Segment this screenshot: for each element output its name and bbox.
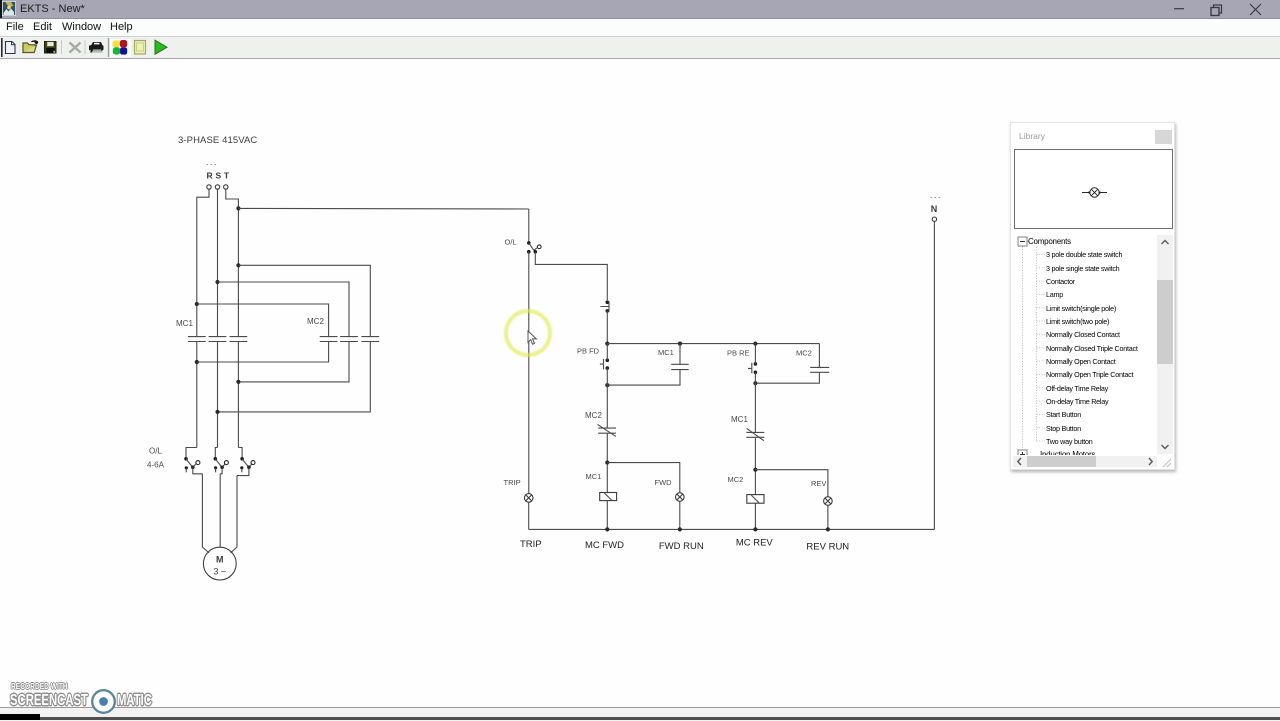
node junction REV chain top xyxy=(753,342,757,346)
node junction below PB FD xyxy=(605,383,609,387)
wire chain top rail xyxy=(607,343,819,345)
wire phase T down xyxy=(226,189,239,336)
svg-text:N: N xyxy=(931,204,938,214)
wire TRIP rail xyxy=(528,252,530,494)
wire T to MC2 right input xyxy=(238,265,370,336)
wire S below MC1 xyxy=(217,342,219,448)
mouse cursor xyxy=(527,330,539,347)
contact MC1 normally closed xyxy=(746,428,764,440)
terminal R xyxy=(207,185,211,189)
node bottom TRIP xyxy=(605,527,609,531)
watermark recorded with xyxy=(11,681,68,691)
toolbar xyxy=(0,37,1280,59)
wire MC1 coil to bottom xyxy=(606,501,608,530)
watermark screencastomatic logo xyxy=(90,688,117,715)
svg-text:MC1: MC1 xyxy=(658,348,674,357)
wire MC2 left output to R xyxy=(197,342,329,363)
svg-text:REV RUN: REV RUN xyxy=(806,542,849,553)
wire MC1 NC to coil node xyxy=(754,437,756,494)
node junction FWD chain top xyxy=(605,342,609,346)
run (play) icon xyxy=(155,40,167,54)
svg-text:MC1: MC1 xyxy=(586,472,602,481)
vertical scrollbar xyxy=(1157,235,1173,454)
node junction T to control rail xyxy=(236,206,240,210)
node junction R branch to MC2 xyxy=(195,302,199,306)
svg-text:PB FD: PB FD xyxy=(577,346,600,355)
preview box xyxy=(1014,149,1173,229)
start button PB FD xyxy=(600,358,609,370)
separator xyxy=(84,40,86,54)
wire FWD lamp to bottom xyxy=(679,501,681,529)
library panel xyxy=(1010,122,1175,470)
title bar xyxy=(0,0,1280,19)
wire REV lamp branch xyxy=(755,470,828,497)
wire motor lead middle xyxy=(219,474,221,547)
lamp REV xyxy=(824,497,833,506)
wire MC2 NC to coil node xyxy=(606,433,608,492)
svg-text:MC FWD: MC FWD xyxy=(585,540,624,551)
svg-text:3 ~: 3 ~ xyxy=(213,567,226,577)
wire MC2 right output to S xyxy=(218,342,371,412)
wire N rail xyxy=(933,221,935,529)
contact MC1 holding NO xyxy=(607,344,688,386)
terminal T xyxy=(224,185,228,189)
contactor MC2 main contacts xyxy=(320,337,380,342)
svg-text:PB RE: PB RE xyxy=(727,348,750,357)
wire FWD lamp branch xyxy=(607,463,680,493)
group divider xyxy=(108,38,110,57)
expand box components xyxy=(1018,237,1027,246)
open folder icon xyxy=(23,40,38,52)
wire PB FD to MC2 NC xyxy=(606,368,608,428)
node bottom MC REV xyxy=(753,527,757,531)
svg-text:TRIP: TRIP xyxy=(520,539,542,550)
node junction S branch to MC2 xyxy=(215,280,219,284)
lamp FWD xyxy=(676,493,685,502)
menu bar xyxy=(0,19,1280,37)
svg-text:REV: REV xyxy=(811,479,826,488)
coil MC2 xyxy=(747,495,764,504)
grid dots above RST xyxy=(207,164,217,166)
wire MC2 coil to bottom xyxy=(754,503,756,529)
wire phase S down xyxy=(217,189,219,336)
node junction R merge xyxy=(195,360,199,364)
node bottom FWD xyxy=(678,527,682,531)
svg-text:3-PHASE 415VAC: 3-PHASE 415VAC xyxy=(178,135,257,146)
svg-text:TRIP: TRIP xyxy=(504,478,521,487)
overload O/L pole 2 xyxy=(214,448,229,474)
node junction MC1 hold top xyxy=(678,342,682,346)
components tree xyxy=(1011,235,1157,455)
wire R to MC2 left input xyxy=(197,304,329,337)
svg-text:O/L: O/L xyxy=(149,447,162,456)
scenario page icon xyxy=(135,41,146,55)
highlight ring around cursor xyxy=(504,309,552,357)
delete X icon (disabled) xyxy=(70,43,81,53)
contact MC2 normally closed xyxy=(598,424,617,436)
svg-text:MC2: MC2 xyxy=(307,317,324,326)
separator xyxy=(61,40,63,54)
contact MC2 holding NO xyxy=(755,344,829,384)
lamp preview symbol xyxy=(1081,183,1109,203)
wire T below MC1 xyxy=(237,342,239,448)
svg-text:O/L: O/L xyxy=(505,238,517,247)
svg-text:RST: RST xyxy=(207,171,232,181)
node junction T branch to MC2 xyxy=(236,263,240,267)
wire motor lead right xyxy=(231,476,237,553)
wire O/L NO to stop button xyxy=(535,252,607,300)
svg-text:MC1: MC1 xyxy=(731,415,748,424)
node junction REV branch xyxy=(753,468,757,472)
horizontal scrollbar xyxy=(1013,456,1157,467)
node junction FWD branch xyxy=(605,460,609,464)
resize grip xyxy=(1159,455,1173,468)
wire bottom rail xyxy=(529,528,935,530)
print icon xyxy=(89,42,104,53)
svg-text:FWD RUN: FWD RUN xyxy=(659,541,704,552)
app icon xyxy=(2,1,16,16)
wire REV lamp to bottom xyxy=(827,505,829,529)
wire PB FD top connection xyxy=(606,344,608,361)
svg-text:MC2: MC2 xyxy=(728,475,744,484)
motor M 3~ xyxy=(203,547,236,580)
overload trip contact control xyxy=(527,241,541,254)
wire motor lead left xyxy=(202,474,209,553)
terminal N xyxy=(932,217,936,221)
wire control supply rail xyxy=(238,207,528,210)
wire R below MC1 xyxy=(196,342,198,448)
node bottom REV RUN xyxy=(826,527,830,531)
wire TRIP to bottom rail xyxy=(528,502,530,529)
overload O/L pole 1 xyxy=(184,448,202,474)
coil MC1 xyxy=(600,493,617,501)
toolbar grip xyxy=(1,38,3,57)
grid dots above N xyxy=(931,197,941,199)
svg-text:MC REV: MC REV xyxy=(736,538,774,549)
wire control left rail top xyxy=(528,209,530,243)
svg-text:MC2: MC2 xyxy=(796,349,812,358)
stop button xyxy=(600,300,609,312)
node junction below PB RE xyxy=(753,381,757,385)
bottom bar xyxy=(0,707,1280,721)
wire stop button to chain rail xyxy=(606,311,608,344)
svg-text:M: M xyxy=(216,555,224,565)
wire MC2 middle output to T xyxy=(238,342,349,382)
contactor MC1 main contacts xyxy=(188,337,247,342)
svg-text:MC1: MC1 xyxy=(176,319,193,328)
node junction S merge xyxy=(215,410,219,414)
wire PB RE top connection xyxy=(754,344,756,364)
components (colored squares) icon xyxy=(113,40,128,55)
node junction T merge xyxy=(236,380,240,384)
new file icon xyxy=(6,42,16,54)
svg-text:MC2: MC2 xyxy=(585,411,602,420)
lamp TRIP xyxy=(524,494,533,503)
overload O/L pole 3 xyxy=(237,448,255,476)
start button PB RE xyxy=(748,362,757,374)
svg-text:4-6A: 4-6A xyxy=(147,461,165,470)
window controls xyxy=(1160,0,1280,18)
wire phase R down xyxy=(197,189,209,336)
svg-text:FWD: FWD xyxy=(655,478,673,487)
wire S to MC2 middle input xyxy=(218,282,350,337)
terminal S xyxy=(215,185,219,189)
save icon xyxy=(45,42,57,54)
wire PB RE to MC1 NC xyxy=(754,372,756,432)
